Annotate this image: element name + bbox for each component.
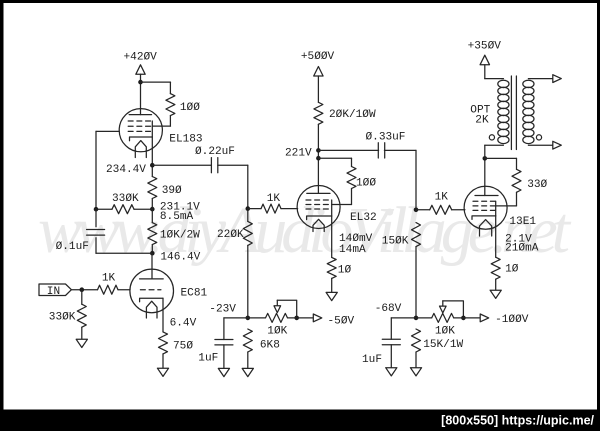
svg-text:1K: 1K: [435, 192, 449, 204]
wire -23V left: [224, 317, 248, 319]
wire 1uF to ground(left): [223, 345, 225, 369]
wire 10 to ground (13E1): [495, 279, 497, 290]
resistor 220K: [243, 221, 252, 245]
svg-text:Ø.33uF: Ø.33uF: [366, 132, 406, 144]
13E1 cathode: [472, 216, 496, 220]
wire EC81 plate lead: [151, 253, 153, 279]
node grid bias: [94, 207, 99, 212]
resistor 1K (EC81 grid): [98, 285, 119, 294]
OPT core: [510, 76, 512, 150]
svg-text:EC81: EC81: [181, 288, 208, 300]
EL183 grid g2: [128, 125, 151, 127]
wire -23V to pot: [248, 317, 266, 319]
capacitor 0.22uF: [210, 158, 212, 173]
EL183 grid g3: [128, 120, 151, 122]
EL183 grid g1: [128, 130, 151, 132]
wire R100 top lead: [169, 82, 171, 94]
resistor 330K (input): [77, 304, 86, 327]
wire node to 1K: [248, 208, 261, 210]
EL183 plate: [129, 114, 151, 116]
wire 150K to -68V node: [415, 247, 417, 318]
wire -68V left: [391, 317, 416, 319]
wire -68V to pot: [416, 317, 432, 319]
bottom bar: [0, 410, 600, 431]
svg-text:Ø.1uF: Ø.1uF: [56, 241, 89, 253]
wire primary top lead: [485, 78, 504, 80]
wire 20K to plate: [317, 124, 319, 193]
svg-text:75Ø: 75Ø: [173, 340, 193, 352]
capacitor 1uF (right): [382, 338, 400, 340]
EL32 grid g3: [306, 199, 328, 201]
pot 10K (left) wiper: [277, 300, 296, 318]
svg-text:-23V: -23V: [209, 304, 236, 316]
capacitor 1uF (left): [215, 339, 233, 341]
ground (15K/1W): [410, 368, 421, 376]
resistor 1K (13E1 grid): [430, 205, 452, 214]
phase dot secondary: [536, 135, 541, 140]
EL183 cathode: [130, 137, 153, 141]
EL32 grid g2: [306, 204, 328, 206]
wire node to 1K (13E1): [416, 209, 430, 211]
OPT primary winding: [498, 80, 509, 87]
svg-text:21ØmA: 21ØmA: [505, 242, 539, 254]
input tag IN: [39, 284, 71, 296]
svg-text:6.4V: 6.4V: [170, 317, 197, 329]
wire 13E1 cathode lead: [495, 216, 497, 257]
ground (13E1 cathode): [490, 290, 501, 298]
wire 330 to 13E1 screen: [496, 205, 517, 207]
EL183 heater: [135, 141, 146, 158]
13E1 suppressor-cathode bar: [495, 201, 497, 216]
wire +500V down: [317, 76, 319, 102]
svg-text:+35ØV: +35ØV: [468, 41, 502, 53]
wire 220K to -23V node: [247, 245, 249, 318]
wire EL183 cathode lead: [151, 137, 153, 177]
svg-text:2ØK/1ØW: 2ØK/1ØW: [329, 109, 376, 121]
svg-text:22ØK: 22ØK: [217, 229, 244, 241]
wire 330 bottom: [516, 192, 518, 206]
node 234.4V: [150, 163, 155, 168]
EC81 grid: [140, 289, 161, 291]
ground (input 330K): [76, 339, 87, 347]
wire node to R 100 top: [141, 81, 171, 83]
wire R100 top lead (EL32): [351, 158, 353, 166]
svg-text:33ØK: 33ØK: [49, 312, 76, 324]
svg-text:1Ø: 1Ø: [338, 265, 352, 277]
node 13E1 plate: [483, 156, 488, 161]
potentiometer 10K (left) track: [266, 313, 288, 322]
tube EC81 envelope: [130, 269, 174, 313]
wire 1K to EC81 grid: [118, 289, 130, 291]
node screen branch: [316, 156, 321, 161]
svg-text:2K: 2K: [475, 114, 489, 126]
tube EL183 envelope: [119, 109, 162, 152]
wire grid column down: [95, 131, 97, 209]
wire 0.1uF to 146.4V node: [96, 252, 152, 254]
arrow -50V: [313, 314, 322, 322]
wire 330 top lead: [516, 158, 518, 169]
wire IN to node: [71, 289, 97, 291]
EL32 heater: [313, 219, 324, 231]
wire divider right: [134, 208, 152, 210]
wire 10K2W bottom: [151, 245, 153, 254]
wire branch to R100: [318, 157, 351, 159]
phase dot primary: [489, 135, 494, 140]
wire secondary top lead: [528, 78, 552, 80]
wire 13E1 plate lead: [484, 158, 486, 195]
resistor 10 (EL32): [327, 257, 336, 278]
node 146.4V: [150, 251, 155, 256]
svg-text:+5ØØV: +5ØØV: [301, 51, 335, 63]
svg-text:1ØK/2W: 1ØK/2W: [160, 230, 200, 242]
wire bias to 0.1uF: [95, 209, 97, 227]
wire to 1uF (right): [390, 318, 392, 339]
wire pot to -100V arrow: [454, 317, 480, 319]
ground (6K8): [242, 368, 253, 376]
EC81 heater: [146, 301, 157, 318]
wire divider left: [96, 208, 112, 210]
svg-text:1ØK: 1ØK: [267, 325, 287, 337]
wire 0.1uF bottom: [95, 238, 97, 253]
EC81 cathode: [140, 298, 163, 302]
svg-text:15ØK: 15ØK: [382, 236, 409, 248]
wire primary to plate node: [484, 145, 486, 158]
wire 1uF to ground (right): [390, 345, 392, 368]
EC81 plate: [140, 278, 164, 280]
13E1 grid g2: [473, 205, 497, 207]
13E1 plate: [475, 195, 498, 197]
node 221V: [316, 148, 321, 153]
wire 1K to EL32 grid: [281, 208, 298, 210]
tube EL32 envelope: [297, 186, 340, 229]
wire input to 330K: [81, 290, 83, 305]
wire 1K to 13E1 grid: [452, 209, 465, 211]
svg-text:1ØK: 1ØK: [435, 326, 455, 338]
ground (1uF left): [218, 368, 229, 376]
ground (EL32 cathode): [326, 292, 337, 300]
svg-text:15K/1W: 15K/1W: [423, 339, 463, 351]
svg-text:14mA: 14mA: [339, 244, 366, 256]
resistor 750: [159, 332, 168, 354]
svg-text:1ØØ: 1ØØ: [180, 102, 200, 114]
node plate/screen supply: [138, 80, 143, 85]
resistor 6K8: [243, 329, 252, 352]
svg-text:-1ØØV: -1ØØV: [495, 314, 529, 326]
wire R100 bottom lead: [169, 116, 171, 127]
resistor 150K: [412, 223, 421, 247]
wire 390 to 10K/2W: [151, 199, 153, 223]
pot 10K (right) wiper: [443, 301, 464, 318]
wire EL183 grid left: [96, 130, 119, 132]
svg-text:-68V: -68V: [375, 303, 402, 315]
svg-text:EL183: EL183: [169, 134, 202, 146]
wire +420V down: [140, 74, 142, 114]
wire 6K8 to ground: [247, 352, 249, 368]
wire plate node to 330: [485, 157, 517, 159]
resistor 100 (EL183 screen): [166, 94, 175, 116]
svg-text:1uF: 1uF: [198, 353, 218, 365]
svg-text:IN: IN: [47, 286, 60, 298]
EL32 grid g1: [306, 208, 328, 210]
svg-text:221V: 221V: [285, 147, 312, 159]
wire 10 to ground (EL32): [331, 278, 333, 292]
13E1 grid g1: [473, 209, 497, 211]
EL32 cathode: [307, 216, 332, 220]
wire 330K to ground: [81, 327, 83, 339]
svg-text:6K8: 6K8: [260, 339, 280, 351]
node -68V: [414, 316, 419, 321]
OPT secondary winding: [523, 80, 534, 87]
svg-text:234.4V: 234.4V: [106, 164, 146, 176]
frame border: [0, 0, 600, 3]
wire 750 to ground: [162, 354, 164, 368]
resistor 20K/10W: [314, 102, 323, 124]
arrow -100V: [480, 314, 489, 322]
resistor 1K (EL32 grid): [261, 204, 281, 213]
capacitor 0.1uF: [87, 229, 105, 231]
13E1 grid g3: [473, 200, 497, 202]
svg-text:EL32: EL32: [350, 212, 377, 224]
node 231.1V: [150, 207, 155, 212]
EL183 suppressor-cathode bar: [151, 121, 153, 137]
EL32 plate: [307, 192, 330, 194]
svg-text:1K: 1K: [102, 273, 116, 285]
resistor 10K/2W: [148, 223, 157, 245]
power +500V arrow: [314, 67, 323, 77]
wire to 1uF (left): [223, 318, 225, 340]
svg-text:39Ø: 39Ø: [162, 185, 182, 197]
svg-text:146.4V: 146.4V: [160, 251, 200, 263]
node pot wiper right: [461, 316, 466, 321]
wire secondary bottom lead: [528, 144, 552, 146]
wire down to 13E1 grid node: [415, 150, 417, 209]
wire 234V to cap: [152, 164, 211, 166]
wire cap to 220K column: [218, 164, 248, 166]
wire EL32 cathode lead: [331, 216, 333, 257]
EL32 suppressor-cathode bar: [331, 200, 333, 216]
resistor 10 (13E1): [491, 257, 500, 279]
resistor 100 (EL32 screen): [347, 167, 356, 189]
svg-text:Ø.22uF: Ø.22uF: [195, 146, 235, 158]
potentiometer 10K (right) track: [432, 313, 454, 322]
svg-text:1Ø: 1Ø: [505, 264, 519, 276]
wire R100 bottom (EL32): [351, 189, 353, 205]
svg-text:1uF: 1uF: [362, 354, 382, 366]
wire pot to -50V arrow: [288, 317, 314, 319]
wire R100 to EL32 screen: [332, 204, 352, 206]
arrow secondary top: [553, 75, 562, 83]
tube 13E1 envelope: [464, 186, 507, 229]
resistor 15K/1W: [412, 329, 421, 352]
power +420V arrow: [136, 65, 145, 75]
resistor 390: [148, 177, 157, 199]
node EL32 grid: [246, 206, 251, 211]
svg-text:13E1: 13E1: [509, 216, 536, 228]
resistor 330: [512, 169, 521, 192]
svg-text:33Ø: 33Ø: [527, 179, 547, 191]
wire 221V to 0.33uF: [318, 149, 378, 151]
node -23V: [246, 316, 251, 321]
13E1 heater: [480, 220, 492, 236]
wire 0.22uF column down: [247, 165, 249, 221]
wire EC81 cathode lead: [162, 298, 164, 332]
node pot wiper left: [294, 316, 299, 321]
svg-text:1ØØ: 1ØØ: [356, 178, 376, 190]
svg-text:[800x550] https://upic.me/: [800x550] https://upic.me/: [441, 414, 594, 428]
node input: [80, 287, 85, 292]
svg-text:-5ØV: -5ØV: [328, 316, 355, 328]
wire primary bottom lead: [485, 144, 504, 146]
resistor 330K (divider): [112, 205, 134, 214]
wire R100 to screen: [152, 125, 170, 127]
ground (750): [157, 368, 168, 376]
svg-text:8.5mA: 8.5mA: [160, 211, 194, 223]
svg-text:1K: 1K: [267, 193, 281, 205]
wire +350V down: [484, 65, 486, 79]
power +350V arrow: [480, 55, 489, 64]
capacitor 0.33uF: [377, 143, 379, 158]
svg-text:+42ØV: +42ØV: [124, 52, 158, 64]
wire 15K to ground: [415, 352, 417, 368]
arrow secondary bottom: [553, 141, 562, 149]
node 13E1 grid: [414, 208, 419, 213]
svg-text:33ØK: 33ØK: [112, 193, 139, 205]
wire 0.33uF right: [384, 149, 416, 151]
ground (1uF right): [386, 368, 397, 376]
